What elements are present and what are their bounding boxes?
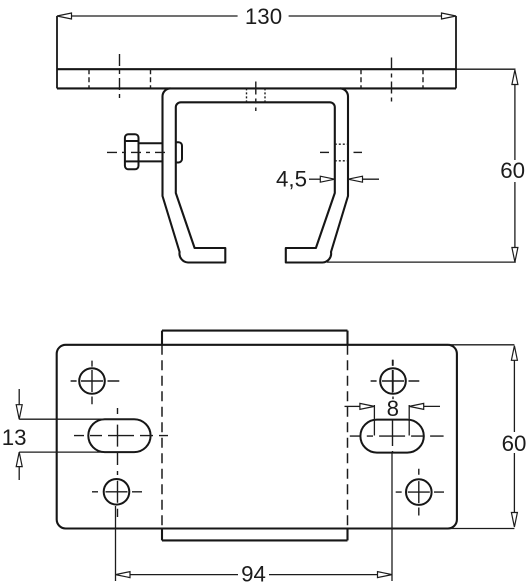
- hole top-left: [79, 368, 105, 394]
- centerline left slot (top view): [119, 54, 121, 101]
- hole top-right: [380, 368, 406, 394]
- svg-text:60: 60: [502, 431, 527, 456]
- dimension 130: [71, 15, 442, 17]
- dimension 60 (bottom view): [448, 345, 514, 529]
- extension line from bottom-left hole: [115, 506, 117, 581]
- tangent extension lines: [19, 418, 135, 420]
- arrow tails: [18, 389, 20, 405]
- extension line from right slot: [391, 453, 393, 581]
- centerline of top hole: [255, 82, 257, 112]
- arrowhead 60-bottom up: [511, 346, 517, 361]
- slot right (obround): [360, 420, 423, 453]
- arrowhead 4,5 right: [348, 176, 363, 182]
- plate (side view): [57, 16, 516, 88]
- svg-text:13: 13: [2, 425, 27, 450]
- plate right edge + 130 extension: [455, 16, 457, 88]
- arrowhead 13 top: [16, 405, 22, 420]
- centerline bottom-left hole horizontal: [92, 491, 142, 493]
- common vertical centerline left slot + bottom hole: [117, 408, 119, 517]
- svg-text:8: 8: [387, 396, 399, 421]
- base plate (bottom view): [57, 345, 457, 529]
- centerlines top-right hole: [371, 380, 420, 382]
- svg-text:94: 94: [241, 561, 266, 586]
- hole bottom-right: [406, 479, 432, 505]
- arrowhead 130 right: [442, 13, 457, 19]
- centerline right slot (top view): [391, 58, 393, 102]
- arrowhead 60-bottom down: [511, 513, 517, 528]
- arrowhead 94 right: [378, 572, 393, 578]
- plate bottom edge: [57, 87, 456, 89]
- arrowhead 60-top down: [512, 248, 518, 263]
- hidden hole in channel top (dotted edges): [247, 88, 266, 102]
- bolt shaft: [139, 142, 163, 144]
- slot left horizontal centerline: [74, 435, 168, 437]
- channel rectangle (seen through plate): [162, 331, 348, 541]
- hidden slot edges (left slot) in plate: [89, 69, 423, 88]
- svg-text:60: 60: [500, 158, 525, 183]
- arrowhead 13 bottom: [16, 452, 22, 467]
- plate top edge + right extension to 60-dim: [57, 68, 456, 70]
- centerlines bottom-right hole: [396, 491, 444, 493]
- bolt tip through inner wall: [176, 142, 182, 162]
- dimension 8: [345, 405, 441, 436]
- arrowhead 8 left: [360, 403, 375, 409]
- arrowhead 60-top up: [512, 70, 518, 85]
- dimension 13: [19, 389, 135, 480]
- centerlines top-left hole: [71, 380, 120, 382]
- dimension 60 (top view): [327, 84, 516, 262]
- centerline of right wall hole: [320, 151, 329, 153]
- dimension 4,5: [309, 178, 379, 180]
- arrowhead 4,5 left: [320, 176, 335, 182]
- arrowhead 130 left: [57, 13, 72, 19]
- bolt M-screw on left wall: hex head: [125, 134, 182, 169]
- bolt centerline: [107, 151, 170, 153]
- hole bottom-left: [104, 479, 130, 505]
- C-channel profile: [163, 88, 349, 262]
- arrowhead 8 right: [409, 403, 424, 409]
- slot left (obround): [88, 419, 150, 452]
- vertical centerline right slot + top hole: [392, 360, 394, 453]
- plate left edge + 130 extension: [56, 16, 58, 88]
- svg-text:4,5: 4,5: [276, 167, 307, 192]
- arrowhead 94 left: [116, 572, 131, 578]
- hidden slot edges (right slot) in plate: [360, 69, 362, 88]
- hidden channel edges behind plate: [162, 345, 348, 529]
- slot right horizontal centerline: [350, 435, 444, 437]
- svg-text:130: 130: [245, 4, 282, 29]
- hidden hole in right wall (dotted): [335, 144, 348, 161]
- dimension 94: [116, 453, 393, 581]
